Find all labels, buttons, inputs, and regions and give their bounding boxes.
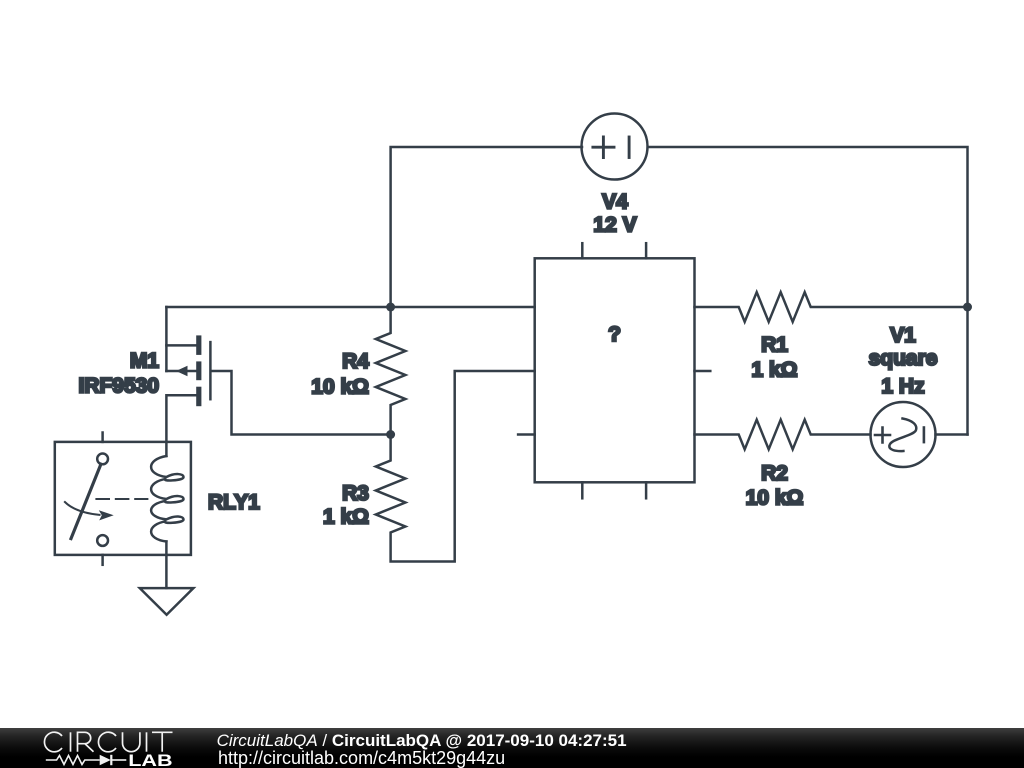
svg-text:1 Hz: 1 Hz (881, 375, 924, 398)
channel bar bottom (196, 387, 201, 407)
resistor R1 (695, 292, 968, 322)
letter C (44, 732, 62, 752)
IC box U1 (mystery part) (518, 243, 710, 498)
V1 waveform glyph (889, 419, 916, 452)
voltage source V1 (square wave) (871, 402, 936, 467)
source/bulk vertical wire (165, 307, 168, 371)
drain lead (166, 395, 196, 456)
V4 minus terminal mark (628, 137, 631, 158)
svg-text:IRF9530: IRF9530 (78, 375, 159, 398)
svg-text:R2: R2 (761, 462, 788, 485)
relay RLY1 (55, 433, 191, 565)
letter T (152, 732, 173, 751)
wire top-right: V4 right terminal to right column (648, 147, 967, 307)
junction node at rail/R4 (386, 303, 395, 312)
svg-text:RLY1: RLY1 (208, 491, 260, 514)
switch top stub (101, 433, 104, 442)
svg-text:V4: V4 (602, 191, 628, 214)
switch bottom stub (101, 555, 104, 565)
wire main rail (M1 source to IC box left pin) (166, 306, 534, 309)
voltage source V4 (582, 114, 648, 180)
svg-text:LAB: LAB (128, 752, 172, 768)
letter I (70, 732, 72, 751)
resistor R4 (376, 307, 406, 435)
junction node at right column/R1 (963, 303, 972, 312)
logo resistor-diode squiggle (46, 755, 127, 765)
svg-text:R3: R3 (342, 482, 369, 505)
bulk arrow (176, 366, 188, 376)
resistor R2 (695, 420, 871, 450)
svg-text:1 kΩ: 1 kΩ (751, 358, 797, 381)
gate wire to R4/R3 junction (212, 371, 391, 435)
svg-text:1 kΩ: 1 kΩ (323, 506, 369, 529)
letter U (123, 732, 140, 751)
svg-text:http://circuitlab.com/c4m5kt29: http://circuitlab.com/c4m5kt29g44zu (218, 748, 505, 768)
resistor R3 + wire to IC left-middle pin (376, 371, 535, 562)
pin stub left-bottom (518, 433, 535, 436)
svg-text:12 V: 12 V (593, 214, 636, 237)
actuation curved arrow (65, 502, 100, 515)
svg-text:CircuitLabQA / CircuitLabQA @: CircuitLabQA / CircuitLabQA @ 2017-09-10… (217, 731, 627, 750)
wire coil to ground (165, 542, 168, 589)
wire right column: node down to V1 right terminal (966, 307, 969, 435)
switch lever (71, 464, 101, 538)
switch bottom contact (97, 535, 108, 546)
svg-text:square: square (869, 347, 938, 370)
actuation dashed line (96, 498, 147, 500)
pin stub bottom 1 (581, 482, 584, 498)
ground (140, 588, 194, 615)
bulk lead (166, 370, 196, 373)
pin stub bottom 2 (645, 482, 648, 498)
letter I (146, 732, 148, 751)
switch top contact (97, 454, 108, 465)
letter R (78, 732, 94, 751)
svg-text:R1: R1 (761, 333, 788, 356)
letter C (98, 732, 116, 752)
gate line (209, 342, 212, 399)
pin stub right-middle (695, 370, 711, 373)
svg-text:?: ? (608, 323, 621, 346)
V1 minus terminal mark (923, 428, 926, 443)
pin stub top 1 (581, 243, 584, 258)
V4 plus terminal mark (593, 137, 614, 158)
relay box (55, 442, 191, 555)
wire top-left: V4 left terminal to R4 column (391, 147, 582, 307)
svg-text:V1: V1 (890, 324, 916, 347)
source lead (166, 344, 196, 347)
svg-text:R4: R4 (342, 350, 369, 373)
wire V1 right terminal (936, 433, 968, 436)
junction node at R4/R3/gate (386, 430, 395, 439)
V1 plus terminal mark (875, 428, 890, 443)
pin stub top 2 (645, 243, 648, 258)
svg-text:M1: M1 (130, 349, 159, 372)
logo CIRCUIT wordmark (44, 732, 172, 752)
svg-text:10 kΩ: 10 kΩ (311, 375, 369, 398)
svg-text:10 kΩ: 10 kΩ (746, 486, 804, 509)
coil (151, 456, 183, 542)
channel bar middle (196, 361, 201, 380)
channel bar top (196, 335, 201, 355)
transistor M1 IRF9530 (PMOS) (166, 307, 390, 456)
